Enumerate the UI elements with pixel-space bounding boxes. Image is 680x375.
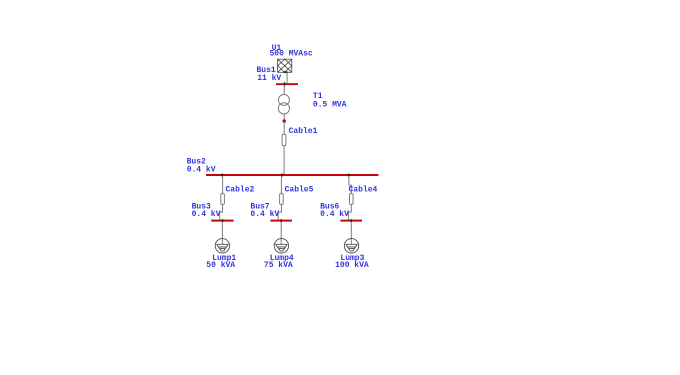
svg-text:Cable1: Cable1 (289, 127, 318, 136)
svg-text:100 kVA: 100 kVA (335, 261, 369, 270)
svg-text:Cable2: Cable2 (226, 186, 255, 195)
svg-text:75 kVA: 75 kVA (264, 261, 293, 270)
svg-text:0.4 kV: 0.4 kV (320, 210, 349, 219)
svg-text:0.4 kV: 0.4 kV (192, 210, 221, 219)
svg-text:50 kVA: 50 kVA (206, 261, 235, 270)
svg-text:Cable5: Cable5 (285, 186, 314, 195)
svg-text:0.4 kV: 0.4 kV (250, 210, 279, 219)
svg-text:Cable4: Cable4 (349, 186, 378, 195)
svg-text:11 kV: 11 kV (257, 74, 281, 83)
svg-text:0.5 MVA: 0.5 MVA (313, 101, 347, 110)
svg-text:500 MVAsc: 500 MVAsc (270, 49, 313, 58)
svg-text:0.4 kV: 0.4 kV (187, 165, 216, 174)
